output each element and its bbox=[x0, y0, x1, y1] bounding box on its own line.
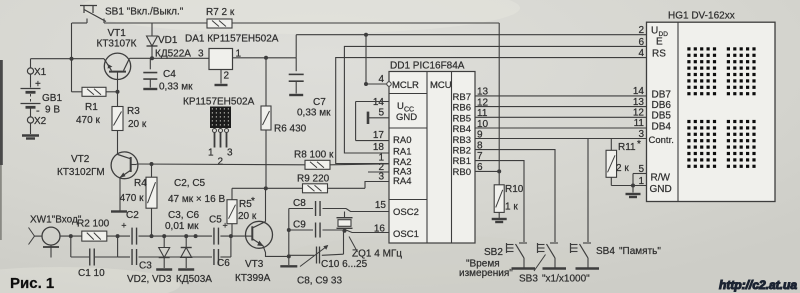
svg-text:VD1: VD1 bbox=[158, 35, 178, 46]
svg-text:R2 100: R2 100 bbox=[77, 219, 110, 230]
svg-text:X2: X2 bbox=[34, 116, 47, 127]
svg-text:15: 15 bbox=[375, 200, 387, 211]
svg-text:C6: C6 bbox=[217, 258, 230, 269]
svg-text:*: * bbox=[637, 139, 641, 150]
svg-text:R4: R4 bbox=[134, 178, 147, 189]
svg-text:C2, C5: C2, C5 bbox=[174, 178, 206, 189]
svg-text:14: 14 bbox=[373, 97, 385, 108]
svg-text:3: 3 bbox=[378, 172, 384, 183]
svg-text:R/W: R/W bbox=[651, 173, 671, 184]
svg-text:RB6: RB6 bbox=[453, 103, 471, 114]
svg-text:13: 13 bbox=[633, 97, 645, 108]
svg-text:XW1"Вход": XW1"Вход" bbox=[30, 215, 82, 226]
svg-text:5: 5 bbox=[638, 164, 644, 175]
svg-text:2: 2 bbox=[224, 71, 230, 82]
svg-text:R10: R10 bbox=[505, 184, 524, 195]
svg-text:VD2, VD3: VD2, VD3 bbox=[127, 274, 172, 285]
svg-text:1: 1 bbox=[208, 148, 214, 159]
svg-text:9 В: 9 В bbox=[45, 105, 60, 116]
svg-text:КД503А: КД503А bbox=[176, 274, 212, 285]
svg-text:RA0: RA0 bbox=[393, 135, 411, 146]
svg-text:4: 4 bbox=[378, 74, 384, 85]
svg-text:GB1: GB1 bbox=[42, 93, 62, 104]
svg-text:VT1: VT1 bbox=[108, 28, 127, 39]
svg-text:SB2: SB2 bbox=[484, 247, 503, 258]
svg-text:C4: C4 bbox=[163, 69, 176, 80]
svg-text:C2: C2 bbox=[126, 210, 139, 221]
svg-text:18: 18 bbox=[373, 142, 385, 153]
svg-text:C10 6...25: C10 6...25 bbox=[321, 259, 368, 270]
svg-text:RA4: RA4 bbox=[393, 176, 411, 187]
svg-text:DB6: DB6 bbox=[652, 100, 672, 111]
svg-text:5: 5 bbox=[378, 108, 384, 119]
svg-text:C3, C6: C3, C6 bbox=[168, 210, 200, 221]
svg-text:C7: C7 bbox=[313, 97, 326, 108]
svg-text:1: 1 bbox=[638, 176, 644, 187]
svg-text:RB0: RB0 bbox=[453, 167, 471, 178]
svg-text:R9 220: R9 220 bbox=[297, 174, 330, 185]
svg-text:470 к: 470 к bbox=[76, 115, 100, 126]
svg-text:DB7: DB7 bbox=[652, 90, 672, 101]
svg-text:C5: C5 bbox=[209, 215, 222, 226]
svg-text:SB1 "Вкл./Выкл.": SB1 "Вкл./Выкл." bbox=[105, 7, 184, 18]
svg-text:0,33 мк: 0,33 мк bbox=[297, 108, 331, 119]
svg-text:470 к: 470 к bbox=[120, 193, 144, 204]
svg-text:DA1 КР1157ЕН502А: DA1 КР1157ЕН502А bbox=[185, 34, 279, 45]
svg-text:U: U bbox=[397, 101, 404, 112]
svg-text:http://c2.at.ua: http://c2.at.ua bbox=[719, 278, 797, 292]
svg-text:E: E bbox=[656, 37, 663, 48]
svg-text:OSC1: OSC1 bbox=[393, 229, 419, 240]
svg-text:1: 1 bbox=[236, 49, 242, 60]
svg-text:R6 430: R6 430 bbox=[274, 124, 307, 135]
svg-text:4: 4 bbox=[638, 48, 644, 59]
svg-text:C9: C9 bbox=[293, 220, 306, 231]
svg-text:C3: C3 bbox=[139, 261, 152, 272]
svg-text:R11: R11 bbox=[618, 142, 636, 153]
svg-text:-: - bbox=[36, 105, 40, 117]
svg-text:0,33 мк: 0,33 мк bbox=[159, 82, 193, 93]
svg-text:КР1157ЕН502А: КР1157ЕН502А bbox=[183, 97, 255, 108]
svg-text:измерения": измерения" bbox=[459, 268, 513, 279]
svg-text:R1: R1 bbox=[85, 102, 98, 113]
svg-text:RS: RS bbox=[652, 49, 666, 60]
svg-text:Рис. 1: Рис. 1 bbox=[10, 275, 54, 292]
svg-text:+: + bbox=[35, 79, 41, 90]
svg-text:2: 2 bbox=[218, 157, 224, 168]
svg-text:R3: R3 bbox=[127, 106, 140, 117]
svg-text:RB3: RB3 bbox=[453, 135, 471, 146]
svg-text:КД522А: КД522А bbox=[155, 49, 191, 60]
svg-text:C8, C9 33: C8, C9 33 bbox=[297, 276, 342, 287]
svg-text:R7 2 к: R7 2 к bbox=[206, 7, 235, 18]
svg-text:RA1: RA1 bbox=[393, 147, 411, 158]
svg-text:17: 17 bbox=[373, 130, 385, 141]
svg-text:MCLR: MCLR bbox=[392, 80, 419, 91]
svg-text:20 к: 20 к bbox=[128, 119, 147, 130]
svg-text:VT3: VT3 bbox=[245, 259, 264, 270]
svg-text:VT2: VT2 bbox=[71, 154, 90, 165]
svg-text:"x1/x1000": "x1/x1000" bbox=[542, 274, 590, 285]
svg-text:R8 100 к: R8 100 к bbox=[294, 150, 334, 161]
svg-text:RB4: RB4 bbox=[453, 124, 471, 135]
svg-text:11: 11 bbox=[634, 118, 645, 129]
svg-text:3: 3 bbox=[227, 148, 233, 159]
svg-text:14: 14 bbox=[633, 86, 645, 97]
svg-text:C8: C8 bbox=[293, 198, 306, 209]
svg-text:2 к: 2 к bbox=[616, 163, 629, 174]
svg-text:6: 6 bbox=[638, 37, 644, 48]
svg-text:DD1 PIC16F84A: DD1 PIC16F84A bbox=[390, 61, 465, 72]
svg-text:RB1: RB1 bbox=[453, 156, 471, 167]
svg-text:47 мк × 16 В: 47 мк × 16 В bbox=[168, 194, 225, 205]
svg-text:SB4: SB4 bbox=[596, 246, 615, 257]
svg-text:RB5: RB5 bbox=[453, 113, 471, 124]
svg-text:КТ399А: КТ399А bbox=[235, 273, 271, 284]
svg-text:КТ3107К: КТ3107К bbox=[97, 39, 137, 50]
svg-text:0,01 мк: 0,01 мк bbox=[165, 221, 199, 232]
svg-text:20 к: 20 к bbox=[238, 211, 257, 222]
svg-text:*: * bbox=[251, 196, 255, 207]
svg-text:DB5: DB5 bbox=[652, 111, 672, 122]
svg-text:U: U bbox=[651, 26, 658, 37]
svg-text:RB7: RB7 bbox=[453, 92, 471, 103]
svg-text:1 к: 1 к bbox=[505, 202, 518, 213]
svg-text:OSC2: OSC2 bbox=[393, 207, 419, 218]
svg-text:HG1 DV-162xx: HG1 DV-162xx bbox=[668, 11, 735, 22]
svg-text:КТ3102ГМ: КТ3102ГМ bbox=[57, 167, 105, 178]
svg-text:"Память": "Память" bbox=[619, 246, 661, 257]
svg-text:RB2: RB2 bbox=[453, 146, 471, 157]
svg-text:X1: X1 bbox=[34, 67, 47, 78]
svg-text:12: 12 bbox=[633, 108, 645, 119]
svg-text:2: 2 bbox=[638, 25, 644, 36]
svg-text:+: + bbox=[121, 221, 126, 231]
svg-text:C1 10: C1 10 bbox=[78, 268, 105, 279]
svg-text:Contr.: Contr. bbox=[649, 135, 674, 146]
svg-text:MCU: MCU bbox=[430, 80, 452, 91]
svg-text:3: 3 bbox=[198, 49, 204, 60]
svg-text:GND: GND bbox=[396, 112, 417, 123]
svg-text:SB3: SB3 bbox=[519, 274, 538, 285]
svg-text:DB4: DB4 bbox=[652, 121, 672, 132]
svg-text:GND: GND bbox=[650, 184, 672, 195]
